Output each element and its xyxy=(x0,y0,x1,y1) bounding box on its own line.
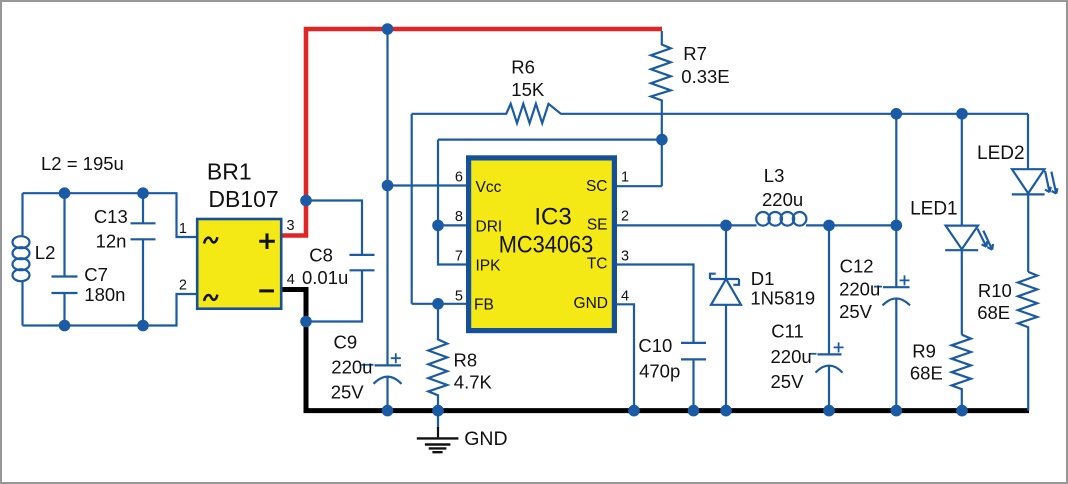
svg-text:68E: 68E xyxy=(910,363,943,384)
node R7 bottom junction xyxy=(656,134,668,146)
capacitor C13 xyxy=(131,193,156,325)
wire FB pin 5 xyxy=(412,303,467,305)
svg-text:2: 2 xyxy=(179,278,187,294)
svg-text:TC: TC xyxy=(587,256,608,273)
capacitor C9 electrolytic xyxy=(375,364,402,366)
wire R6 left vertical to FB xyxy=(411,114,413,304)
LED2 xyxy=(1027,114,1029,169)
node rail C12 xyxy=(891,108,903,120)
svg-text:C11: C11 xyxy=(771,321,804,342)
wire Vcc pin 6 xyxy=(388,184,467,186)
svg-text:7: 7 xyxy=(455,249,463,265)
svg-text:D1: D1 xyxy=(751,268,775,289)
svg-text:5: 5 xyxy=(455,289,463,305)
IC3 box xyxy=(469,158,615,331)
node rail LED1 xyxy=(956,108,968,120)
svg-text:470p: 470p xyxy=(639,361,680,382)
svg-text:25V: 25V xyxy=(839,301,873,322)
svg-text:GND: GND xyxy=(464,428,507,450)
svg-text:2: 2 xyxy=(621,209,629,225)
LED1 arrows xyxy=(977,229,987,247)
svg-text:R7: R7 xyxy=(683,43,707,64)
wire input bottom rail to BR1 pin 2 xyxy=(23,294,197,326)
wire Vin vertical to C9 xyxy=(386,29,388,365)
svg-text:SE: SE xyxy=(587,217,608,234)
svg-text:25V: 25V xyxy=(331,381,365,402)
LED2 arrows xyxy=(1045,171,1051,192)
svg-text:LED2: LED2 xyxy=(977,143,1025,164)
svg-text:8: 8 xyxy=(455,209,463,225)
node D1 junction xyxy=(720,220,732,232)
wire DRI/IPK vertical xyxy=(438,140,467,265)
capacitor C7 xyxy=(52,193,78,325)
inductor L3 xyxy=(756,212,806,226)
wire black negative from BR1 pin 4 along bottom ground xyxy=(283,290,1030,411)
BR1 minus xyxy=(259,289,274,292)
BR1 ~ top xyxy=(204,237,217,243)
resistor R7 xyxy=(651,31,671,186)
svg-text:4.7K: 4.7K xyxy=(454,371,493,392)
svg-text:220u: 220u xyxy=(771,346,812,367)
node C11 junction xyxy=(823,220,835,232)
wire SC pin 1 xyxy=(617,185,662,187)
C9 plus sign xyxy=(391,353,401,363)
svg-text:C9: C9 xyxy=(334,331,358,352)
wire SC feedback horizontal xyxy=(438,139,662,141)
svg-text:C12: C12 xyxy=(840,255,874,276)
ground symbol xyxy=(437,413,439,428)
svg-text:4: 4 xyxy=(621,289,629,305)
capacitor C8 xyxy=(306,201,375,322)
svg-text:DB107: DB107 xyxy=(208,186,278,212)
svg-text:IPK: IPK xyxy=(476,258,502,275)
svg-text:220u: 220u xyxy=(839,279,880,300)
svg-text:0.33E: 0.33E xyxy=(681,66,729,87)
node SE end junction xyxy=(891,220,903,232)
resistor R10 xyxy=(1018,272,1037,411)
svg-text:LED1: LED1 xyxy=(910,199,958,220)
svg-text:220u: 220u xyxy=(331,356,372,377)
wire L3 right to C12 column xyxy=(806,224,896,226)
wire GND pin 4 down xyxy=(617,304,634,408)
capacitor C12 electrolytic xyxy=(883,114,910,287)
node C8 top on red xyxy=(300,195,312,207)
wire input top rail to BR1 pin 1 xyxy=(23,193,197,237)
svg-text:SC: SC xyxy=(586,178,608,195)
svg-text:68E: 68E xyxy=(977,302,1010,323)
capacitor C11 electrolytic xyxy=(818,225,842,354)
ground node dots on black rail xyxy=(382,405,394,417)
svg-text:1: 1 xyxy=(621,170,629,186)
svg-text:12n: 12n xyxy=(96,230,127,251)
svg-text:R9: R9 xyxy=(912,340,936,361)
svg-text:C8: C8 xyxy=(309,245,333,266)
svg-text:C7: C7 xyxy=(84,264,108,285)
wire SE pin 2 to L3 xyxy=(617,224,757,226)
svg-text:GND: GND xyxy=(574,295,608,312)
svg-text:4: 4 xyxy=(287,272,295,288)
svg-text:3: 3 xyxy=(287,218,295,234)
diode D1 1N5819 xyxy=(725,225,727,408)
inductor L2 xyxy=(13,236,30,281)
svg-text:Vcc: Vcc xyxy=(476,179,502,196)
node DRI junction xyxy=(432,220,444,232)
svg-text:L2: L2 xyxy=(35,242,56,263)
svg-text:R8: R8 xyxy=(454,350,478,371)
node Vcc junction xyxy=(382,180,394,192)
svg-text:C13: C13 xyxy=(94,206,128,227)
bridge rectifier BR1 box xyxy=(197,219,281,309)
svg-text:L2 = 195u: L2 = 195u xyxy=(41,153,124,174)
svg-text:DRI: DRI xyxy=(476,219,503,236)
node red top junction xyxy=(382,23,394,35)
svg-text:IC3: IC3 xyxy=(534,204,571,231)
svg-text:MC34063: MC34063 xyxy=(499,232,594,259)
node dots input rails xyxy=(59,187,71,199)
svg-text:FB: FB xyxy=(474,296,494,313)
resistor R8 xyxy=(428,304,447,408)
wire L2 stubs xyxy=(21,193,23,325)
node C8 bottom on black xyxy=(300,316,312,328)
svg-text:15K: 15K xyxy=(511,79,545,100)
wire TC pin 3 to C10 xyxy=(617,265,694,343)
svg-text:1N5819: 1N5819 xyxy=(750,288,815,309)
svg-text:BR1: BR1 xyxy=(207,159,252,185)
svg-text:1: 1 xyxy=(179,221,187,237)
capacitor C10 xyxy=(681,343,706,408)
resistor R9 xyxy=(952,335,971,409)
svg-text:25V: 25V xyxy=(771,371,805,392)
svg-text:3: 3 xyxy=(621,249,629,265)
LED1 xyxy=(961,114,963,226)
resistor R6 xyxy=(412,104,1028,123)
BR1 plus xyxy=(259,233,275,249)
BR1 ~ bottom xyxy=(204,295,217,301)
C11 plus sign xyxy=(834,342,844,352)
wire red positive from BR1 pin 3 over the top to R7 xyxy=(283,29,663,236)
svg-text:L3: L3 xyxy=(764,165,785,186)
svg-text:220u: 220u xyxy=(762,189,803,210)
svg-text:R6: R6 xyxy=(511,56,535,77)
svg-text:0.01u: 0.01u xyxy=(302,267,348,288)
node FB junction xyxy=(432,298,444,310)
svg-text:180n: 180n xyxy=(84,284,125,305)
svg-text:6: 6 xyxy=(455,170,463,186)
C12 plus sign xyxy=(900,275,910,285)
svg-text:R10: R10 xyxy=(978,280,1012,301)
svg-text:C10: C10 xyxy=(638,335,672,356)
